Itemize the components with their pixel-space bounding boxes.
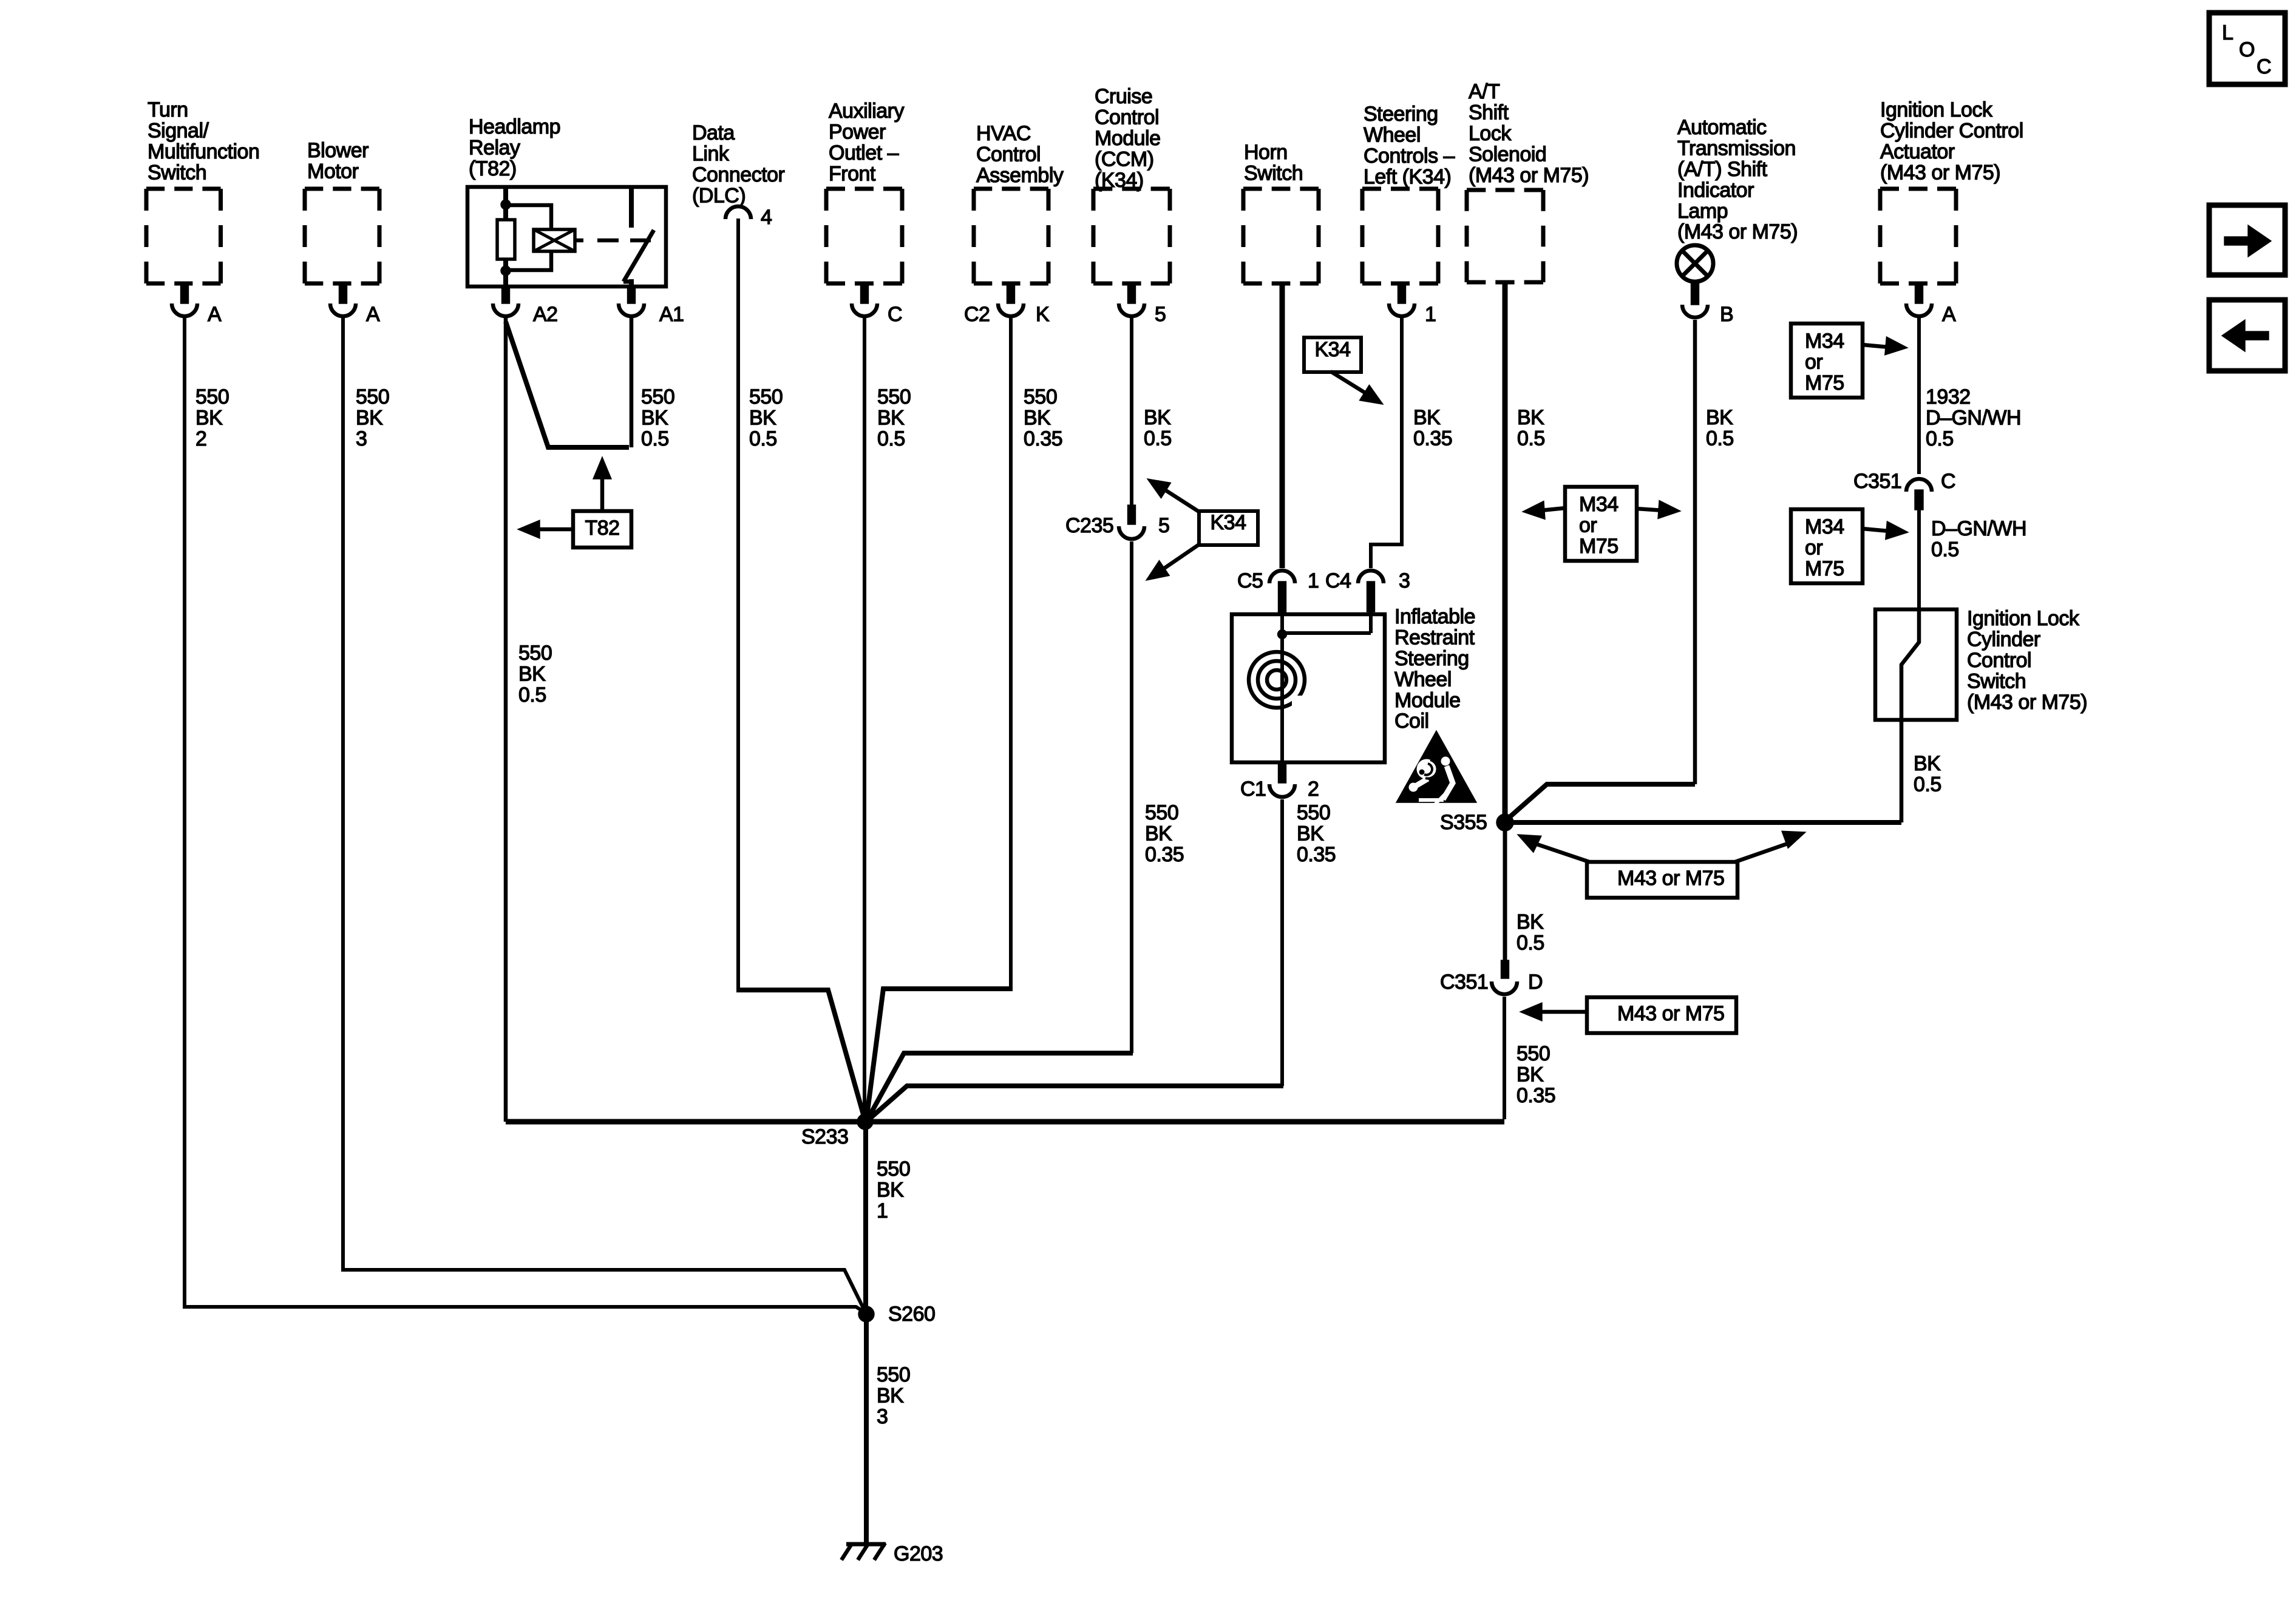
svg-text:4: 4 xyxy=(761,206,772,229)
svg-text:Headlamp: Headlamp xyxy=(469,115,560,138)
svg-text:550: 550 xyxy=(356,385,389,408)
svg-text:Switch: Switch xyxy=(1967,670,2026,693)
svg-text:550: 550 xyxy=(1517,1042,1550,1065)
svg-text:0.5: 0.5 xyxy=(1517,427,1545,450)
svg-text:(M43 or M75): (M43 or M75) xyxy=(1469,164,1589,187)
svg-text:Ignition Lock: Ignition Lock xyxy=(1880,98,1993,121)
svg-text:Front: Front xyxy=(829,162,876,185)
svg-text:1: 1 xyxy=(1425,303,1436,326)
svg-text:S260: S260 xyxy=(888,1303,935,1326)
svg-text:(M43 or M75): (M43 or M75) xyxy=(1677,220,1798,243)
svg-text:M34: M34 xyxy=(1805,330,1844,353)
svg-text:Module: Module xyxy=(1095,127,1161,150)
svg-text:Outlet –: Outlet – xyxy=(829,141,899,164)
svg-text:0.5: 0.5 xyxy=(1926,427,1954,450)
svg-text:L: L xyxy=(2222,21,2233,44)
svg-text:K: K xyxy=(1036,303,1050,326)
svg-text:A: A xyxy=(1942,303,1956,326)
svg-text:Power: Power xyxy=(829,121,886,144)
svg-text:Controls –: Controls – xyxy=(1364,144,1455,168)
svg-text:(K34): (K34) xyxy=(1095,169,1144,192)
svg-text:BK: BK xyxy=(1024,407,1051,430)
svg-text:BK: BK xyxy=(1517,910,1544,934)
svg-text:3: 3 xyxy=(1399,569,1410,592)
svg-text:D: D xyxy=(1528,971,1543,994)
svg-text:Signal/: Signal/ xyxy=(148,120,209,143)
svg-text:0.5: 0.5 xyxy=(877,427,905,450)
svg-text:BK: BK xyxy=(518,663,546,686)
svg-text:(M43 or M75): (M43 or M75) xyxy=(1967,691,2087,714)
svg-text:2: 2 xyxy=(195,427,206,450)
svg-text:0.35: 0.35 xyxy=(1024,427,1062,450)
svg-text:0.5: 0.5 xyxy=(749,427,777,450)
svg-text:BK: BK xyxy=(877,407,905,430)
svg-text:Link: Link xyxy=(692,143,730,166)
svg-text:1: 1 xyxy=(877,1199,888,1222)
svg-text:A2: A2 xyxy=(533,303,558,326)
svg-text:Assembly: Assembly xyxy=(976,164,1064,187)
svg-text:Connector: Connector xyxy=(692,163,785,186)
svg-text:B: B xyxy=(1720,303,1733,326)
svg-text:Left (K34): Left (K34) xyxy=(1364,165,1451,188)
svg-text:Wheel: Wheel xyxy=(1394,668,1452,691)
svg-text:0.5: 0.5 xyxy=(1706,427,1734,450)
svg-text:M75: M75 xyxy=(1805,557,1844,580)
svg-text:0.5: 0.5 xyxy=(1931,538,1959,561)
svg-text:0.35: 0.35 xyxy=(1413,427,1452,450)
svg-text:C1: C1 xyxy=(1240,778,1266,801)
svg-text:BK: BK xyxy=(1517,406,1544,429)
svg-text:Coil: Coil xyxy=(1394,710,1429,733)
svg-text:C: C xyxy=(1941,470,1955,493)
svg-text:3: 3 xyxy=(356,427,367,450)
svg-text:550: 550 xyxy=(1145,801,1178,824)
svg-text:550: 550 xyxy=(877,385,911,408)
svg-text:2: 2 xyxy=(1308,778,1319,801)
svg-text:C2: C2 xyxy=(964,303,990,326)
svg-text:K34: K34 xyxy=(1211,511,1246,534)
svg-text:BK: BK xyxy=(749,407,776,430)
svg-text:Ignition Lock: Ignition Lock xyxy=(1967,607,2080,630)
svg-text:0.5: 0.5 xyxy=(1914,773,1941,796)
svg-text:550: 550 xyxy=(749,385,783,408)
svg-text:S355: S355 xyxy=(1440,811,1487,834)
svg-text:Transmission: Transmission xyxy=(1677,137,1796,160)
svg-text:Motor: Motor xyxy=(307,160,359,183)
svg-text:BK: BK xyxy=(1144,406,1171,429)
svg-text:Indicator: Indicator xyxy=(1677,178,1754,202)
svg-text:Wheel: Wheel xyxy=(1364,124,1421,147)
svg-text:C: C xyxy=(888,303,902,326)
svg-text:Shift: Shift xyxy=(1469,101,1509,124)
svg-text:550: 550 xyxy=(1024,385,1057,408)
svg-text:Solenoid: Solenoid xyxy=(1469,143,1546,166)
svg-text:BK: BK xyxy=(195,407,223,430)
svg-text:M43 or M75: M43 or M75 xyxy=(1617,867,1724,890)
svg-text:BK: BK xyxy=(1706,406,1733,429)
svg-text:Turn: Turn xyxy=(148,98,188,121)
svg-text:Cylinder: Cylinder xyxy=(1967,628,2040,651)
svg-text:5: 5 xyxy=(1155,303,1166,326)
svg-text:G203: G203 xyxy=(894,1542,943,1565)
svg-text:BK: BK xyxy=(1413,406,1441,429)
svg-text:C351: C351 xyxy=(1853,470,1901,493)
svg-text:(CCM): (CCM) xyxy=(1095,147,1154,171)
svg-text:5: 5 xyxy=(1158,514,1169,537)
svg-text:C5: C5 xyxy=(1237,569,1263,592)
svg-text:C235: C235 xyxy=(1065,514,1113,537)
svg-text:Relay: Relay xyxy=(469,137,520,160)
svg-text:0.5: 0.5 xyxy=(518,683,546,707)
svg-text:M43 or M75: M43 or M75 xyxy=(1617,1002,1724,1025)
svg-text:Cruise: Cruise xyxy=(1095,85,1152,108)
svg-text:or: or xyxy=(1579,514,1597,537)
svg-text:550: 550 xyxy=(641,385,674,408)
svg-text:Blower: Blower xyxy=(307,139,369,162)
svg-text:Module: Module xyxy=(1394,689,1461,712)
svg-text:BK: BK xyxy=(1297,822,1324,846)
svg-text:D–GN/WH: D–GN/WH xyxy=(1926,407,2021,430)
svg-text:Data: Data xyxy=(692,121,735,144)
svg-text:0.5: 0.5 xyxy=(1144,427,1172,450)
svg-text:Lamp: Lamp xyxy=(1677,200,1728,223)
svg-text:(DLC): (DLC) xyxy=(692,184,746,207)
svg-text:Horn: Horn xyxy=(1244,141,1288,164)
svg-text:(T82): (T82) xyxy=(469,157,517,180)
svg-text:0.5: 0.5 xyxy=(1517,932,1544,955)
svg-text:Cylinder Control: Cylinder Control xyxy=(1880,120,2023,143)
svg-text:Switch: Switch xyxy=(148,161,206,184)
svg-text:550: 550 xyxy=(195,385,229,408)
svg-text:D–GN/WH: D–GN/WH xyxy=(1931,517,2026,540)
svg-text:(M43 or M75): (M43 or M75) xyxy=(1880,161,2000,184)
svg-text:0.35: 0.35 xyxy=(1297,843,1336,866)
svg-text:Steering: Steering xyxy=(1394,647,1469,670)
svg-text:(A/T) Shift: (A/T) Shift xyxy=(1677,158,1768,181)
svg-text:BK: BK xyxy=(1914,752,1941,775)
svg-text:550: 550 xyxy=(877,1363,910,1386)
svg-text:or: or xyxy=(1805,537,1822,560)
svg-text:BK: BK xyxy=(1145,822,1172,846)
svg-text:3: 3 xyxy=(877,1405,888,1428)
svg-text:C351: C351 xyxy=(1440,971,1488,994)
svg-text:C4: C4 xyxy=(1325,569,1351,592)
svg-text:BK: BK xyxy=(877,1385,904,1408)
svg-text:Control: Control xyxy=(1967,649,2031,672)
svg-text:A: A xyxy=(208,303,222,326)
svg-text:K34: K34 xyxy=(1315,338,1351,361)
svg-text:Switch: Switch xyxy=(1244,162,1303,185)
svg-text:Actuator: Actuator xyxy=(1880,140,1955,163)
svg-text:Inflatable: Inflatable xyxy=(1394,605,1475,628)
svg-text:A/T: A/T xyxy=(1469,80,1500,103)
svg-text:M34: M34 xyxy=(1579,493,1618,516)
svg-text:M34: M34 xyxy=(1805,515,1844,538)
svg-text:O: O xyxy=(2239,38,2255,61)
svg-text:A1: A1 xyxy=(659,303,684,326)
svg-text:Control: Control xyxy=(1095,106,1159,129)
svg-text:M75: M75 xyxy=(1805,371,1844,395)
svg-text:550: 550 xyxy=(877,1158,910,1181)
svg-text:Control: Control xyxy=(976,143,1041,166)
svg-text:BK: BK xyxy=(1517,1063,1544,1086)
svg-text:HVAC: HVAC xyxy=(976,122,1031,145)
svg-text:BK: BK xyxy=(641,407,668,430)
svg-text:C: C xyxy=(2257,55,2271,78)
svg-text:Steering: Steering xyxy=(1364,103,1438,126)
svg-text:Auxiliary: Auxiliary xyxy=(829,100,904,123)
svg-text:Lock: Lock xyxy=(1469,122,1512,145)
svg-text:T82: T82 xyxy=(585,517,619,540)
svg-text:550: 550 xyxy=(1297,801,1330,824)
svg-text:1932: 1932 xyxy=(1926,385,1971,408)
svg-text:Automatic: Automatic xyxy=(1677,116,1767,139)
svg-text:BK: BK xyxy=(877,1179,904,1202)
svg-text:BK: BK xyxy=(356,407,383,430)
svg-text:M75: M75 xyxy=(1579,535,1618,558)
svg-text:Multifunction: Multifunction xyxy=(148,140,259,163)
svg-text:0.35: 0.35 xyxy=(1517,1084,1555,1107)
svg-text:550: 550 xyxy=(518,642,552,665)
svg-text:A: A xyxy=(366,303,380,326)
svg-text:or: or xyxy=(1805,351,1822,374)
svg-text:S233: S233 xyxy=(801,1125,848,1148)
svg-text:1: 1 xyxy=(1308,569,1319,592)
svg-text:0.35: 0.35 xyxy=(1145,843,1184,866)
svg-text:0.5: 0.5 xyxy=(641,427,669,450)
svg-text:Restraint: Restraint xyxy=(1394,626,1475,649)
